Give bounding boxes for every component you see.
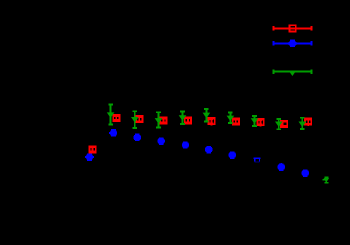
blue point 8 dome: [254, 157, 261, 162]
legend blue entry: [273, 41, 311, 45]
lone green point: [323, 179, 327, 181]
blue dataset: [85, 156, 94, 158]
legend green entry: [273, 69, 311, 73]
green dataset: [108, 104, 113, 124]
legend red entry: [273, 26, 311, 30]
red dataset: [89, 145, 95, 153]
